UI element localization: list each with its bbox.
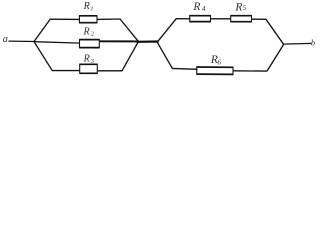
svg-text:5: 5 xyxy=(243,4,247,12)
wire: thick middle wire from R2 to junction xyxy=(99,40,139,42)
svg-text:1: 1 xyxy=(90,5,93,12)
wire: diagonal up to top-right branch xyxy=(158,19,176,42)
svg-text:R: R xyxy=(192,1,200,13)
svg-text:R: R xyxy=(234,1,242,13)
label R3 xyxy=(83,53,95,65)
wire: diagonal up to top-left branch xyxy=(34,19,50,41)
wire: top-left horizontal after R1 xyxy=(97,18,121,20)
wire: diagonal from bottom-left branch up to middle junction xyxy=(122,42,138,71)
wire: bottom-right horizontal after R6 xyxy=(233,70,268,72)
wire: bottom-left horizontal after R3 xyxy=(97,70,122,72)
resistor R4 xyxy=(190,15,211,22)
label R4 xyxy=(192,1,206,13)
svg-text:b: b xyxy=(311,37,315,47)
wire: top-right horizontal before R4 xyxy=(176,18,191,20)
wire: bottom-left horizontal before R3 xyxy=(52,70,80,72)
wire: diagonal from top-right branch down to right merge xyxy=(266,19,284,44)
wire from terminal a to left split xyxy=(9,40,35,42)
wire: diagonal down to bottom-left branch xyxy=(34,42,52,71)
wire: between R4 and R5 xyxy=(210,18,231,20)
resistor R2 xyxy=(79,39,99,48)
node: middle junction, wire between junctions xyxy=(137,40,159,42)
label R1 xyxy=(83,1,94,12)
resistor R5 xyxy=(231,15,252,22)
wire: top-left horizontal before R1 xyxy=(50,18,80,20)
resistor R1 xyxy=(79,15,97,23)
svg-text:4: 4 xyxy=(202,5,206,13)
svg-text:a: a xyxy=(3,34,8,45)
wire: middle horizontal before R2 xyxy=(34,42,80,43)
label R5 xyxy=(234,1,246,13)
node a (left terminal label) xyxy=(3,34,8,45)
label R2 xyxy=(83,27,95,38)
wire: diagonal from top-left branch down to middle junction xyxy=(120,19,138,41)
resistor R3 xyxy=(80,64,98,74)
wire: diagonal down to bottom-right branch xyxy=(157,42,172,69)
wire: top-right horizontal after R5 xyxy=(251,18,266,20)
wire: diagonal from bottom-right branch up to right merge xyxy=(267,45,284,72)
wire: bottom-right horizontal before R6 xyxy=(172,67,198,70)
svg-text:3: 3 xyxy=(90,58,95,65)
svg-text:R: R xyxy=(83,1,90,12)
svg-text:6: 6 xyxy=(218,59,222,67)
wire from right merge to terminal b xyxy=(283,42,311,45)
node b (right terminal label) xyxy=(311,37,315,47)
svg-text:R: R xyxy=(83,53,90,64)
resistor R6 xyxy=(197,66,234,75)
svg-text:R: R xyxy=(83,27,90,38)
label R6 xyxy=(210,54,222,66)
